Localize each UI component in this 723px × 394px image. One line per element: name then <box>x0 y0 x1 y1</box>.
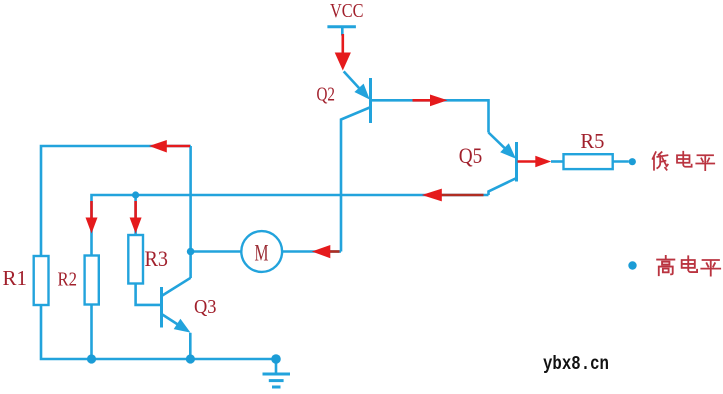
svg-text:R2: R2 <box>58 269 78 291</box>
svg-text:Q2: Q2 <box>317 84 336 106</box>
svg-text:ybx8.cn: ybx8.cn <box>543 353 609 375</box>
svg-text:Q3: Q3 <box>194 296 217 318</box>
svg-text:VCC: VCC <box>330 0 364 22</box>
svg-text:R5: R5 <box>580 129 604 153</box>
svg-text:R3: R3 <box>145 246 169 271</box>
svg-text:Q5: Q5 <box>459 143 483 168</box>
svg-text:R1: R1 <box>3 266 28 290</box>
svg-text:M: M <box>255 241 269 266</box>
